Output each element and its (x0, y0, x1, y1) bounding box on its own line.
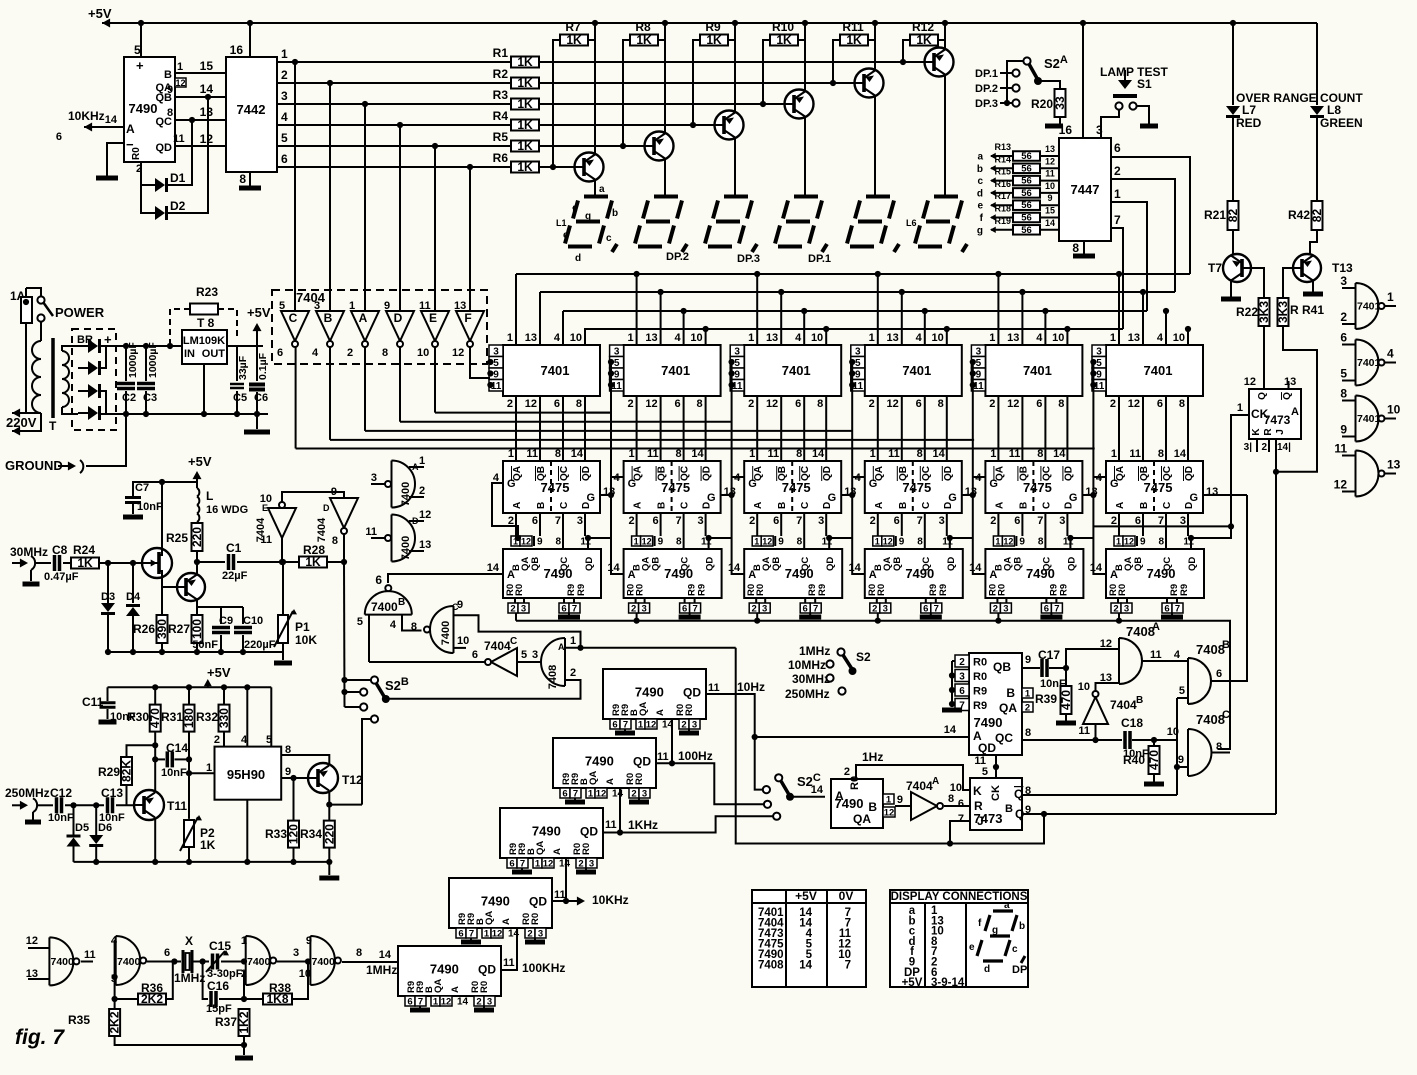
pin box stack 7401#5 (971, 345, 985, 357)
svg-text:12: 12 (200, 132, 214, 146)
svg-text:11: 11 (260, 534, 272, 546)
svg-text:3: 3 (641, 604, 646, 615)
IC 7490 divider 10KHz (449, 878, 552, 928)
pin boxes 2 3 of 7490#5 (990, 603, 1000, 613)
svg-text:R29: R29 (98, 765, 120, 779)
svg-text:12: 12 (1045, 156, 1055, 166)
svg-text:P1: P1 (295, 620, 310, 634)
wire 7401#4 pin 8 down (946, 396, 948, 461)
svg-text:T13: T13 (1332, 261, 1353, 275)
wire 7401#6 pin 1 (1118, 274, 1120, 345)
diode D2 (141, 185, 155, 213)
svg-text:6: 6 (923, 604, 928, 615)
svg-text:C3: C3 (143, 392, 157, 404)
svg-text:2: 2 (1340, 310, 1347, 324)
lever S2B (376, 683, 385, 698)
svg-text:fig. 7: fig. 7 (15, 1026, 65, 1049)
svg-text:10: 10 (932, 332, 944, 344)
svg-text:T11: T11 (167, 799, 187, 813)
wire 7475#2 pin 7 (683, 513, 685, 536)
svg-text:3K3: 3K3 (1276, 301, 1290, 323)
IC 95H90 prescaler (215, 747, 282, 800)
wire 7473A J return from 7473B Q (1275, 439, 1277, 814)
svg-text:14: 14 (1045, 218, 1055, 228)
svg-text:95H90: 95H90 (227, 767, 265, 782)
svg-text:30MHz: 30MHz (10, 545, 48, 559)
svg-text:A: A (552, 848, 563, 855)
wire range QC (1022, 739, 1122, 741)
svg-text:7475: 7475 (1144, 480, 1173, 495)
svg-text:QC: QC (1162, 557, 1173, 571)
svg-text:6: 6 (1014, 515, 1020, 527)
wire 7490#4 QD link (950, 538, 973, 549)
svg-text:2: 2 (870, 515, 876, 527)
svg-text:6: 6 (532, 515, 538, 527)
svg-text:QC: QC (680, 557, 691, 571)
svg-text:g: g (585, 211, 591, 222)
svg-text:7475: 7475 (902, 480, 931, 495)
svg-text:3: 3 (589, 859, 594, 870)
wire 7401#3 pin 10 (825, 329, 827, 345)
wire 7401#4 pin 1 (877, 274, 879, 345)
svg-text:1: 1 (177, 61, 183, 73)
svg-text:F: F (464, 311, 471, 325)
wire 7401#3 pin 8 down (825, 396, 827, 461)
svg-text:R1: R1 (493, 46, 509, 60)
svg-text:7: 7 (1054, 604, 1059, 615)
ground (99, 720, 117, 725)
svg-text:R: R (1263, 428, 1274, 436)
wire 7401#5 pin 10 (1066, 329, 1068, 345)
svg-text:QD: QD (581, 466, 592, 481)
svg-text:A: A (633, 502, 644, 509)
svg-text:5: 5 (281, 131, 288, 145)
gate 7401 output 4 (1356, 340, 1379, 386)
svg-text:3: 3 (521, 604, 526, 615)
svg-text:3: 3 (692, 720, 697, 731)
svg-text:13: 13 (766, 332, 778, 344)
svg-text:11: 11 (173, 133, 185, 145)
svg-text:6: 6 (458, 929, 463, 940)
svg-text:220: 220 (190, 527, 204, 547)
svg-text:14: 14 (933, 448, 946, 460)
svg-text:QA: QA (853, 812, 871, 826)
wire 7408A output to 7408B pin4 (1142, 660, 1188, 662)
table supply pins (752, 890, 866, 987)
IC 7401 digit gate column 6 (1106, 345, 1203, 396)
wire select column 6 (1092, 362, 1094, 477)
wire inverter E output (434, 347, 436, 413)
wire inverter A output (364, 347, 366, 431)
wire secondary bottom to bridge (62, 407, 78, 414)
digit select bus line 5 (296, 448, 1095, 450)
display digit L4 (775, 197, 822, 247)
wire 7473B Qbar to 7408 gating (1022, 794, 1177, 796)
svg-text:15: 15 (200, 59, 214, 73)
wire divider C chain (565, 858, 567, 901)
pin boxes 6 7 of 7490#4 (921, 603, 931, 613)
svg-text:QD: QD (822, 466, 833, 481)
svg-text:6: 6 (1157, 398, 1163, 410)
wire T7 emitter to ground (1230, 281, 1232, 298)
svg-text:J: J (1275, 429, 1286, 435)
svg-text:QD: QD (946, 557, 957, 571)
wire 7442 pin16 to +5V (249, 23, 251, 57)
display connection digit drawing (977, 911, 1017, 961)
inverter 7404A (364, 104, 366, 311)
wire column6 G link (1094, 525, 1231, 527)
svg-text:6: 6 (959, 686, 965, 697)
svg-text:22µF: 22µF (222, 570, 248, 582)
svg-text:G: G (586, 492, 595, 504)
svg-text:D: D (394, 311, 403, 325)
wire 7404B output to 7408A pin13 (1096, 683, 1119, 691)
svg-text:220: 220 (322, 824, 336, 844)
svg-text:7408: 7408 (547, 665, 559, 689)
wire 7473A Qbar stub (1288, 381, 1290, 389)
svg-text:R8: R8 (635, 20, 651, 34)
svg-text:1: 1 (990, 448, 996, 460)
svg-text:14: 14 (728, 562, 741, 574)
wire carry chain into column 5 (973, 477, 986, 574)
svg-text:100Hz: 100Hz (678, 749, 713, 763)
svg-text:4: 4 (281, 110, 288, 124)
wire digit line 4 (539, 124, 714, 126)
wire 7490#6 pin 8 up (1165, 536, 1167, 549)
svg-text:11: 11 (1129, 448, 1141, 460)
transistor T2 digit driver (664, 23, 666, 135)
wire 7475#1 pin 7 (562, 513, 564, 536)
svg-text:4: 4 (1036, 332, 1043, 344)
svg-text:A: A (605, 778, 616, 785)
wire osc2 output (277, 961, 310, 963)
svg-text:7: 7 (623, 720, 628, 731)
svg-text:2: 2 (419, 485, 425, 497)
wire 7475#3 pin 3 (825, 513, 827, 536)
svg-text:2: 2 (527, 929, 532, 940)
svg-text:R42: R42 (1288, 208, 1310, 222)
svg-text:8: 8 (917, 537, 923, 548)
svg-text:1MHz: 1MHz (799, 644, 830, 658)
svg-text:D: D (323, 503, 330, 513)
svg-text:3: 3 (959, 672, 965, 683)
svg-text:7400: 7400 (51, 956, 75, 968)
svg-text:7400: 7400 (117, 956, 141, 968)
svg-text:QC: QC (559, 466, 570, 481)
svg-text:A: A (989, 569, 997, 581)
svg-text:A: A (1110, 569, 1118, 581)
pin boxes 6 7 of 7490#3 (800, 603, 810, 613)
ground (235, 1056, 253, 1061)
wire 7401#4 pin 12 down (901, 396, 903, 461)
svg-text:13: 13 (1045, 144, 1055, 154)
wire 7401#6 pin 12 down (1142, 396, 1144, 461)
wire 7401#5 pin 8 down (1066, 396, 1068, 461)
svg-text:DP.2: DP.2 (975, 83, 998, 95)
pin boxes 1 12 of 7490#3 (752, 536, 761, 546)
wire 7475#4 pin 3 (946, 513, 948, 536)
svg-text:C15: C15 (209, 939, 231, 953)
wire 7490#5 QD link (1070, 538, 1093, 549)
svg-text:+5V: +5V (207, 665, 231, 680)
svg-text:14: 14 (799, 960, 812, 972)
wire digit line 1 (539, 61, 924, 63)
wire 7408C pin9 (1177, 766, 1188, 768)
svg-text:C6: C6 (254, 392, 268, 404)
svg-text:9: 9 (1340, 423, 1347, 437)
svg-text:3: 3 (1059, 515, 1065, 527)
svg-text:12: 12 (766, 398, 778, 410)
svg-text:13: 13 (200, 105, 214, 119)
wire 7401#2 pin 13 (660, 292, 662, 345)
wire T2 emitter to display (664, 158, 666, 196)
svg-text:5: 5 (521, 649, 527, 661)
svg-text:6: 6 (375, 573, 382, 587)
svg-text:7401: 7401 (1357, 301, 1381, 313)
svg-text:8: 8 (1058, 398, 1064, 410)
svg-text:B: B (1222, 639, 1230, 651)
svg-text:A: A (994, 502, 1005, 509)
svg-text:1: 1 (875, 537, 880, 547)
IC 7490 divider 100Hz (553, 738, 656, 788)
svg-text:1MHz: 1MHz (366, 963, 397, 977)
svg-text:12: 12 (596, 789, 607, 800)
svg-text:7401: 7401 (1357, 357, 1381, 369)
IC 7490 divider 1KHz (500, 808, 603, 858)
svg-text:7475: 7475 (782, 480, 811, 495)
svg-text:R0: R0 (581, 843, 592, 855)
svg-text:8: 8 (332, 535, 338, 547)
svg-text:1Hz: 1Hz (862, 750, 883, 764)
wire 7401#6 pin 4 (1165, 311, 1167, 345)
svg-text:56: 56 (1021, 163, 1032, 174)
svg-text:7404: 7404 (484, 639, 511, 653)
svg-text:2: 2 (1114, 164, 1121, 178)
svg-text:14: 14 (612, 789, 624, 800)
wire digit line 6 (539, 166, 574, 168)
svg-text:3: 3 (314, 300, 320, 312)
svg-text:g: g (992, 925, 998, 936)
svg-text:7: 7 (796, 515, 802, 527)
svg-text:QB: QB (536, 466, 547, 481)
node line1 to inverter (292, 59, 298, 65)
ground 7490#1 (568, 613, 570, 615)
IC 7475 latch column 1 (503, 461, 600, 513)
svg-text:R0: R0 (684, 704, 695, 716)
svg-text:7475: 7475 (541, 480, 570, 495)
wire R9 right to +5V column (728, 39, 735, 41)
svg-text:G: G (989, 478, 998, 490)
svg-text:A: A (748, 569, 756, 581)
svg-text:POWER: POWER (55, 305, 105, 320)
display digit L5 (847, 197, 894, 247)
svg-text:7: 7 (675, 515, 681, 527)
svg-text:10: 10 (1052, 332, 1064, 344)
svg-text:R21: R21 (1204, 208, 1226, 222)
svg-text:12: 12 (1334, 478, 1348, 492)
wire 7404C input (517, 661, 542, 663)
ground (239, 186, 261, 191)
wire 7490#6 reset pins to bus (1118, 613, 1120, 621)
wire osc1 inputs (115, 941, 116, 1009)
svg-text:3: 3 (642, 789, 647, 800)
wire 7475#1 pin 3 (584, 513, 586, 536)
wire 7490#2 reset pins to bus (636, 613, 638, 621)
svg-text:250MHz: 250MHz (785, 687, 830, 701)
svg-text:11: 11 (1009, 448, 1021, 460)
wire 7447 pin8 to ground (1083, 241, 1085, 254)
svg-text:10: 10 (299, 968, 311, 980)
gate 7408A range (1119, 638, 1142, 684)
svg-text:8: 8 (1340, 387, 1347, 401)
node line4 to inverter (397, 122, 403, 128)
svg-text:13: 13 (1206, 486, 1218, 498)
svg-text:4: 4 (1174, 649, 1181, 661)
svg-text:R10: R10 (772, 20, 794, 34)
wire 100KHz output (500, 928, 517, 970)
IC 7401 digit gate column 2 (624, 345, 721, 396)
svg-text:56: 56 (1021, 176, 1032, 187)
wire 7401#2 pin 6 down (683, 396, 685, 461)
wire 7475#5 pin 3 (1066, 513, 1068, 536)
svg-text:R26: R26 (133, 622, 155, 636)
ground (328, 862, 330, 875)
svg-text:LAMP TEST: LAMP TEST (1100, 65, 1168, 79)
svg-text:12: 12 (441, 997, 452, 1008)
svg-text:7404: 7404 (296, 290, 326, 305)
svg-text:QD: QD (584, 557, 595, 571)
switch POWER (26, 288, 41, 296)
svg-text:+: + (136, 58, 144, 73)
svg-text:R22: R22 (1236, 305, 1258, 319)
svg-text:C1: C1 (226, 541, 242, 555)
svg-text:14: 14 (457, 997, 469, 1008)
svg-text:QA: QA (535, 841, 546, 855)
svg-text:3: 3 (1340, 274, 1347, 288)
svg-text:7: 7 (1037, 515, 1043, 527)
svg-text:B: B (536, 502, 547, 509)
svg-text:13: 13 (1100, 672, 1112, 684)
wire 7475#5 pin 7 (1044, 513, 1046, 536)
wire 7490#5 pin 8 up (1044, 536, 1046, 549)
svg-text:A: A (450, 986, 461, 993)
wire R12 right to +5V column (938, 39, 945, 41)
svg-text:10: 10 (1045, 181, 1055, 191)
flip-flop 7473 B (970, 778, 1022, 830)
wire 7490.QD to 7442 pin12 (175, 145, 226, 147)
svg-text:C14: C14 (166, 741, 188, 755)
svg-text:R4: R4 (493, 109, 509, 123)
svg-text:C16: C16 (207, 979, 229, 993)
wire T5 emitter to display (874, 95, 876, 196)
ground (1140, 124, 1158, 129)
svg-text:7475: 7475 (661, 480, 690, 495)
svg-text:7490: 7490 (532, 824, 561, 839)
svg-text:10nF: 10nF (137, 501, 163, 513)
svg-text:14: 14 (691, 448, 704, 460)
svg-text:c: c (606, 233, 612, 244)
gate 7400A (392, 461, 416, 508)
wire 7475#4 pin 2 (877, 513, 879, 536)
svg-text:3: 3 (1124, 604, 1129, 615)
svg-text:470: 470 (1147, 750, 1161, 770)
svg-text:d: d (575, 253, 581, 264)
wire 7490#5 reset pins to bus (997, 613, 999, 621)
wire T11 emitter (154, 819, 156, 862)
svg-text:LM109K: LM109K (183, 335, 225, 347)
svg-text:5: 5 (279, 300, 285, 312)
LED L8 count (1316, 23, 1318, 105)
wire range QD to 7473B CK (995, 755, 997, 778)
wire 95H90 ground pin (246, 800, 248, 862)
wire 7401#4 pin 6 down (924, 396, 926, 461)
svg-text:1: 1 (1116, 537, 1121, 547)
svg-text:7401: 7401 (782, 363, 811, 378)
svg-text:3: 3 (762, 604, 767, 615)
svg-text:30MHz: 30MHz (792, 672, 830, 686)
svg-text:1000µF: 1000µF (147, 342, 159, 378)
svg-text:QD: QD (580, 825, 598, 839)
wire carry chain into column 3 (732, 477, 745, 574)
comma after digit 1 (612, 244, 617, 252)
svg-text:E: E (429, 311, 437, 325)
svg-text:R2: R2 (493, 67, 509, 81)
wire 7401#3 pin 12 down (780, 396, 782, 461)
svg-text:1K: 1K (517, 55, 533, 69)
svg-text:2: 2 (748, 398, 754, 410)
svg-text:1K: 1K (517, 118, 533, 132)
svg-text:4: 4 (1387, 347, 1394, 361)
wire 7400D pin12 (409, 520, 424, 522)
wire 7401#5 pin 1 (997, 274, 999, 345)
svg-text:QB: QB (651, 557, 662, 571)
wire DC+ rail (101, 345, 183, 347)
svg-text:G: G (869, 478, 878, 490)
svg-text:14: 14 (1174, 448, 1187, 460)
svg-text:8: 8 (676, 537, 682, 548)
svg-text:11: 11 (1334, 442, 1347, 456)
svg-text:1: 1 (1237, 402, 1243, 414)
comma after digit 5 (894, 244, 899, 252)
svg-text:14: 14 (559, 859, 571, 870)
wire 1MHz to S2B (362, 719, 371, 805)
wire 7401#3 pin 13 (780, 292, 782, 345)
svg-text:6: 6 (1036, 398, 1042, 410)
svg-text:1: 1 (869, 332, 875, 344)
svg-text:DP.1: DP.1 (975, 68, 998, 80)
svg-text:1: 1 (638, 720, 644, 731)
inverter 7404B (329, 83, 331, 311)
svg-text:11: 11 (657, 751, 669, 763)
svg-text:12: 12 (175, 78, 185, 88)
wire 1MHz to divider E (397, 961, 399, 963)
IC 7490 counter column 1 (503, 549, 601, 598)
svg-text:3: 3 (281, 89, 288, 103)
wire 7490#3 QD link (829, 538, 852, 549)
svg-text:DP.1: DP.1 (808, 253, 831, 265)
svg-text:6: 6 (652, 515, 658, 527)
svg-text:R0: R0 (973, 657, 987, 669)
wire 7490.B to 7442 pin15 (175, 72, 226, 74)
svg-text:12: 12 (646, 720, 657, 731)
wire 7475#1 pin 2 (515, 513, 517, 536)
svg-text:1: 1 (588, 789, 594, 800)
wire 7490B B/QA to 7404A (895, 805, 911, 807)
ground (942, 708, 962, 713)
gate 7408B (1188, 658, 1211, 704)
node line5 to inverter (432, 143, 438, 149)
svg-text:2: 2 (990, 515, 996, 527)
